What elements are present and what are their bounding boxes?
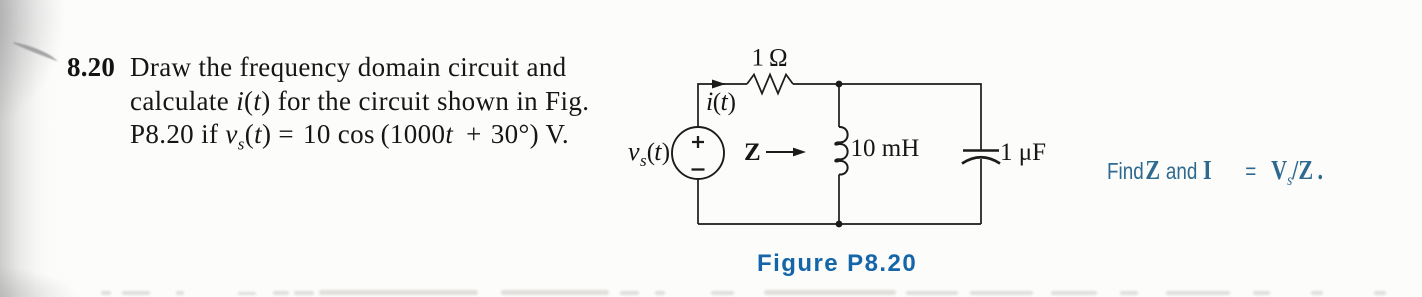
svg-text:): ) bbox=[662, 139, 670, 166]
svg-text:10 mH: 10 mH bbox=[851, 135, 920, 162]
svg-text:): ) bbox=[728, 89, 736, 116]
svg-text:Z: Z bbox=[744, 139, 761, 166]
svg-text:1 Ω: 1 Ω bbox=[752, 45, 788, 72]
svg-text:v: v bbox=[628, 137, 640, 166]
svg-text:1 μF: 1 μF bbox=[1000, 139, 1046, 166]
